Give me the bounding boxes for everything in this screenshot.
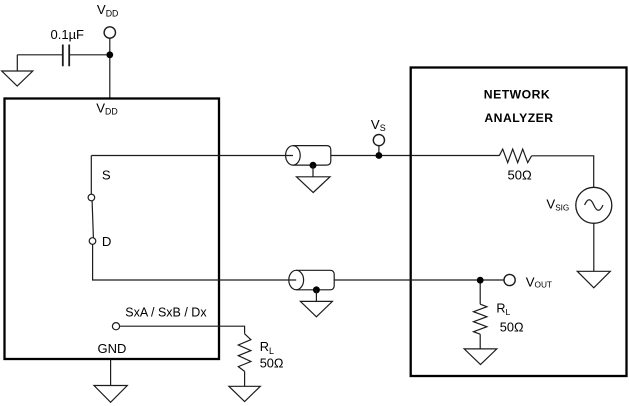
- ground (DUT): [94, 386, 127, 403]
- SxA terminal circle: [112, 323, 119, 330]
- DUT box: [5, 99, 220, 360]
- svg-text:VOUT: VOUT: [526, 274, 552, 289]
- svg-text:S: S: [102, 167, 111, 182]
- source VSIG sine: [585, 200, 603, 211]
- wire VS stem: [378, 146, 380, 153]
- svg-text:50Ω: 50Ω: [500, 319, 524, 334]
- svg-text:RL: RL: [496, 302, 510, 318]
- wire analyzer left edge to resistor: [411, 155, 499, 157]
- node coax1 shield dot: [310, 162, 317, 169]
- source VSIG circle: [576, 187, 612, 223]
- wire S row to coax1: [91, 155, 293, 157]
- wire SxA to RL left: [120, 326, 245, 334]
- svg-text:50Ω: 50Ω: [260, 355, 284, 370]
- wire VOUT junction down: [479, 283, 481, 304]
- wire coax2 shield to ground: [315, 290, 317, 302]
- capacitor C 0.1uF: [63, 45, 69, 67]
- switch terminal D circle: [89, 238, 96, 245]
- switch arm S-D: [92, 201, 93, 238]
- coax cable 2 left ellipse: [289, 270, 304, 289]
- node VS junction dot: [376, 152, 383, 159]
- svg-text:D: D: [102, 234, 112, 249]
- NETWORK ANALYZER box: [411, 68, 627, 377]
- ground (VSIG): [577, 271, 610, 288]
- svg-text:50Ω: 50Ω: [508, 168, 532, 183]
- VOUT terminal circle: [504, 274, 515, 285]
- svg-text:ANALYZER: ANALYZER: [484, 111, 553, 125]
- svg-text:VSIG: VSIG: [546, 196, 569, 212]
- VS terminal circle: [373, 135, 384, 146]
- wire GND box to ground: [110, 360, 112, 386]
- node coax2 shield dot: [313, 286, 320, 293]
- wire coax2 to analyzer VOUT row: [334, 279, 504, 281]
- wire VSIG to ground: [593, 223, 595, 271]
- svg-text:NETWORK: NETWORK: [484, 87, 550, 101]
- wire junction to capacitor: [70, 54, 107, 56]
- VDD terminal circle: [104, 27, 115, 38]
- ground (coax1): [297, 177, 331, 193]
- wire RL left to ground: [244, 371, 246, 386]
- svg-text:VS: VS: [371, 117, 386, 133]
- resistor 50 ohm series: [499, 149, 531, 163]
- svg-text:GND: GND: [98, 341, 127, 356]
- svg-text:VDD: VDD: [96, 100, 118, 116]
- coax cable 2 body: [296, 270, 334, 290]
- coax cable 1 body: [293, 146, 331, 166]
- wire VDD terminal to box: [109, 38, 111, 98]
- wire capacitor to ground: [17, 55, 62, 71]
- svg-text:SxA / SxB / Dx: SxA / SxB / Dx: [125, 305, 207, 319]
- wire S terminal vertical: [90, 156, 92, 195]
- svg-text:RL: RL: [260, 339, 274, 356]
- ground (coax2): [300, 301, 332, 316]
- switch terminal S circle: [88, 194, 95, 201]
- coax cable 1 left ellipse: [286, 146, 301, 165]
- resistor RL left: [238, 334, 251, 372]
- svg-text:VDD: VDD: [97, 2, 119, 18]
- resistor RL analyzer: [474, 304, 487, 334]
- wire coax1 to analyzer: [331, 155, 411, 157]
- node VOUT junction dot: [477, 277, 484, 284]
- wire coax1 shield to ground: [312, 165, 314, 177]
- svg-text:0.1µF: 0.1µF: [51, 27, 85, 42]
- node VDD junction dot: [106, 51, 113, 58]
- ground (RL analyzer): [464, 349, 497, 365]
- wire resistor to VSIG: [532, 156, 594, 188]
- ground (RL left): [229, 386, 260, 401]
- wire RL analyzer to ground: [479, 334, 481, 349]
- wire D terminal down and right: [93, 244, 297, 280]
- ground (capacitor): [2, 71, 33, 86]
